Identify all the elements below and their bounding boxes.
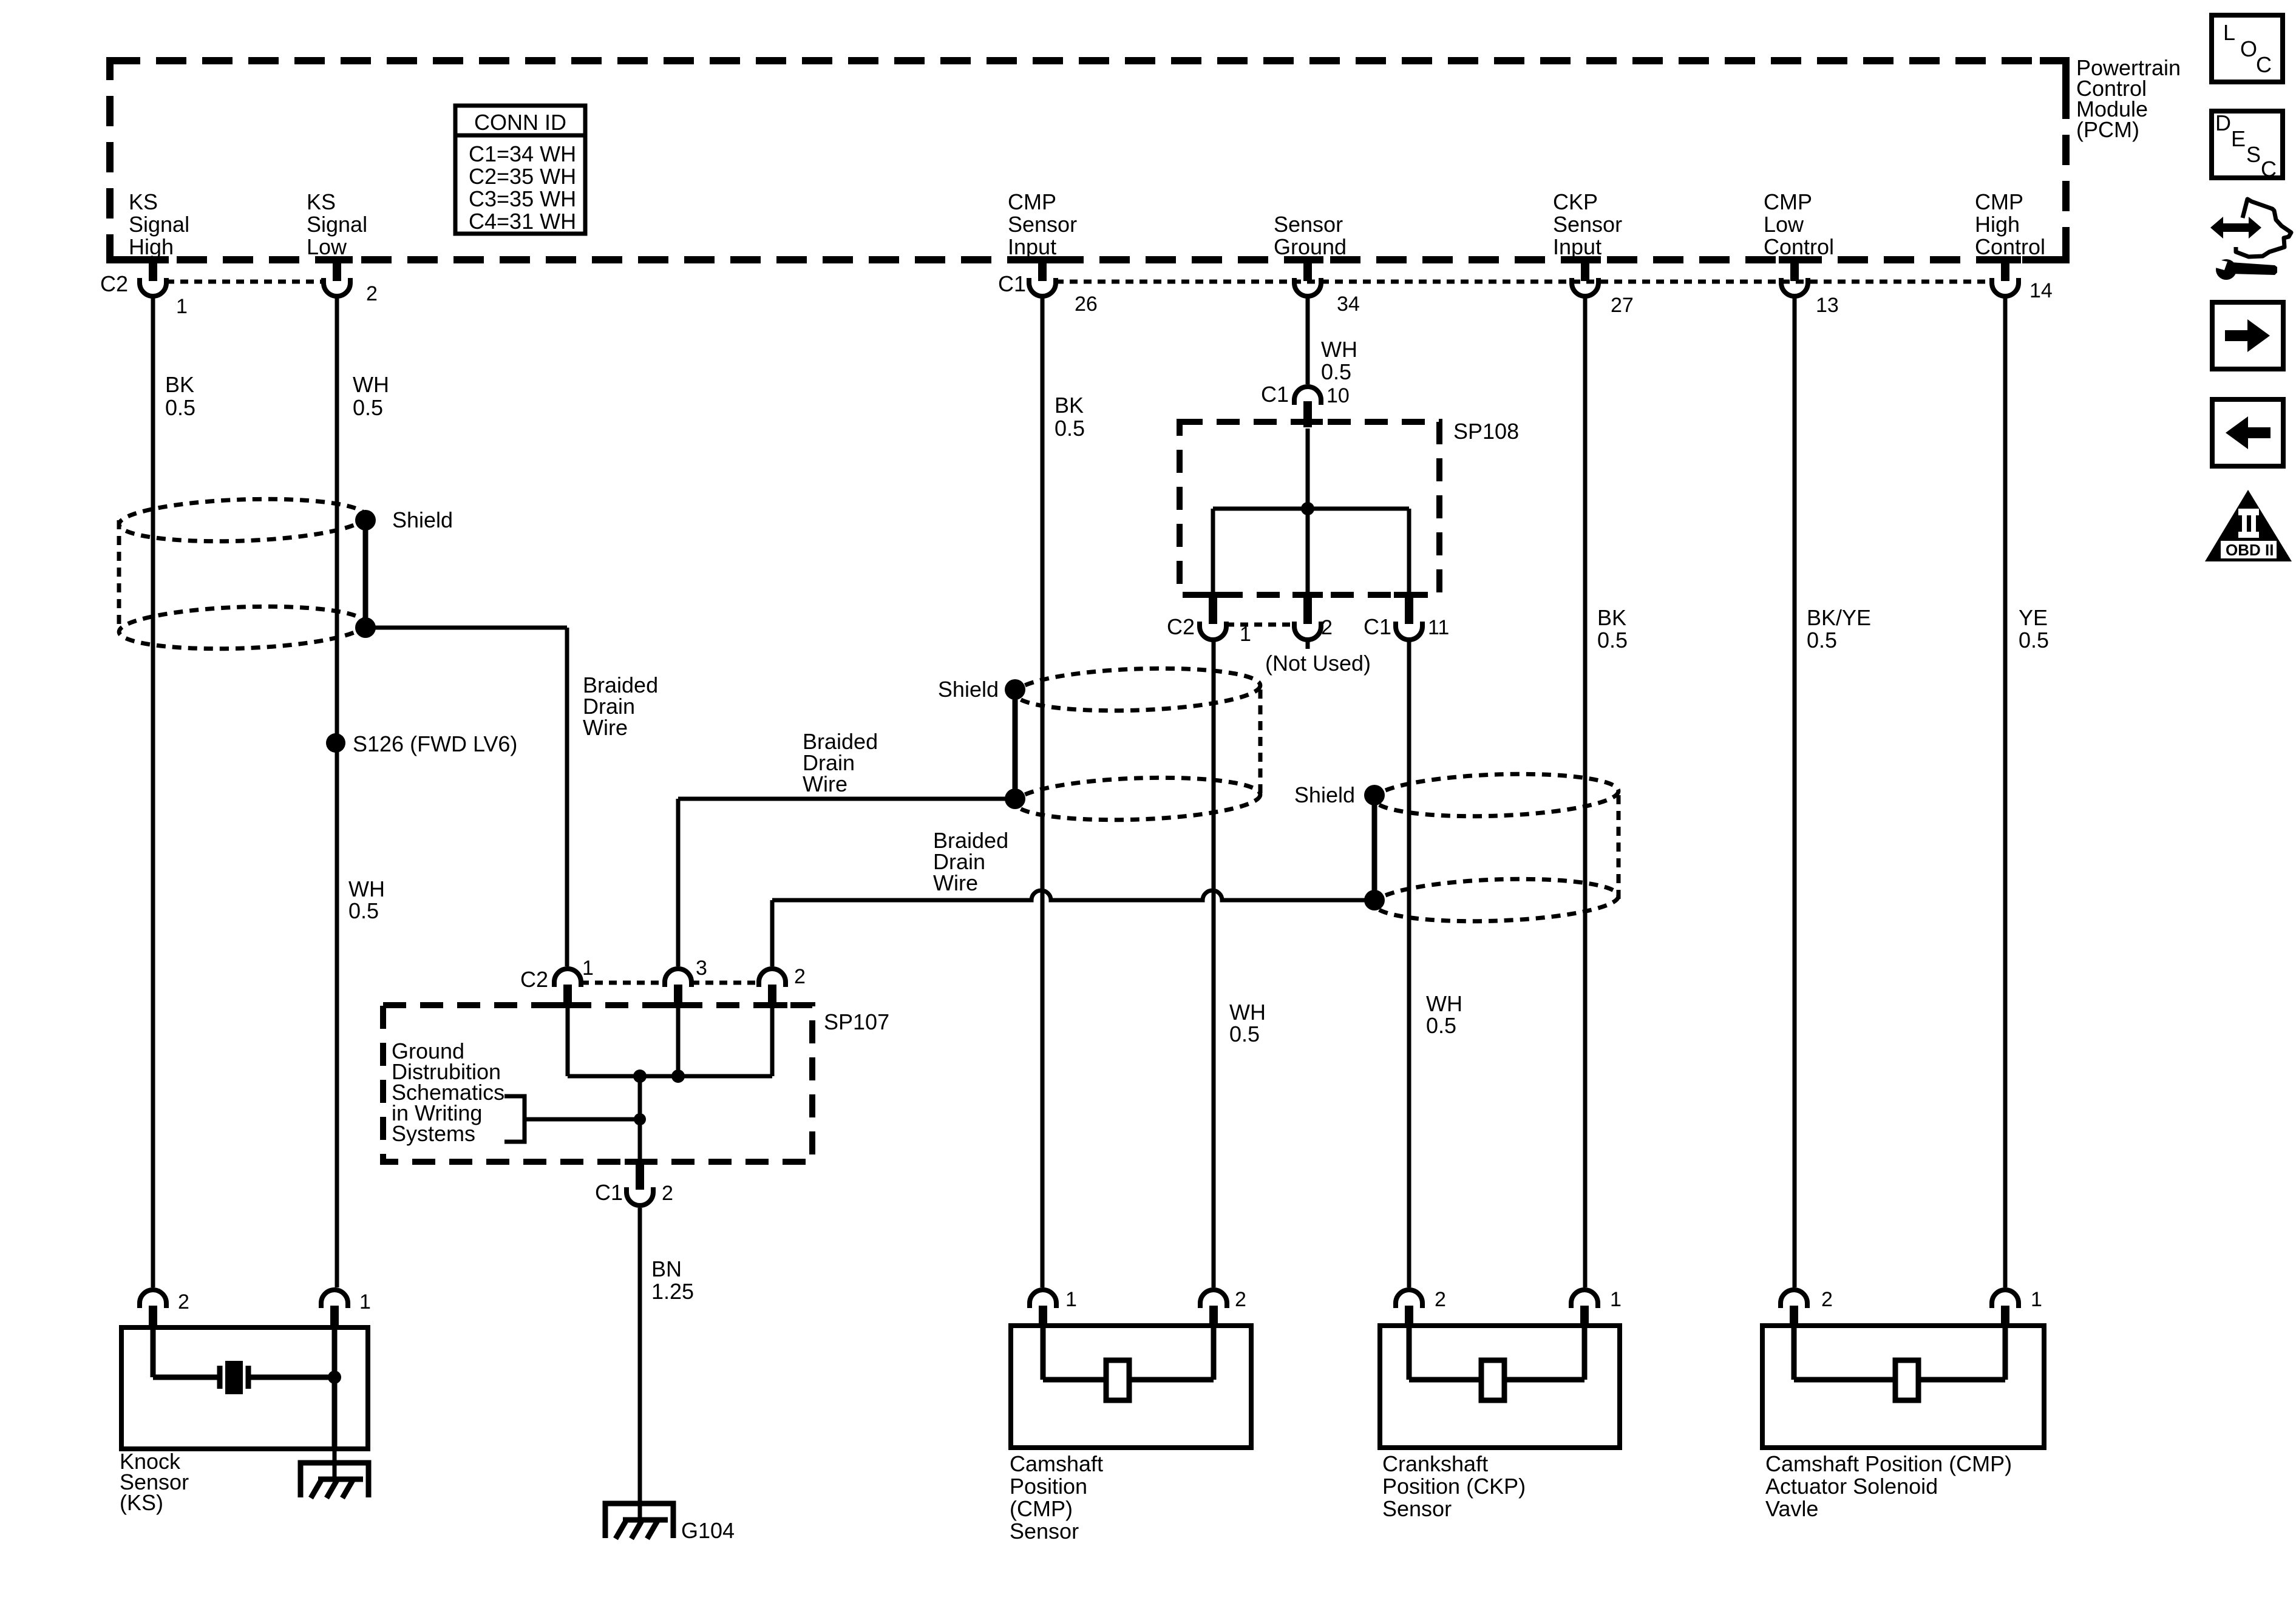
svg-text:BN1.25: BN1.25	[651, 1256, 694, 1304]
terminal C1 pin 27 (CKP Sensor Input)	[1581, 260, 1589, 281]
svg-text:2: 2	[366, 282, 378, 305]
Camshaft Position (CMP) Sensor pin right terminal	[1209, 1306, 1218, 1328]
svg-text:2: 2	[1435, 1288, 1446, 1311]
ground G104	[605, 1503, 673, 1539]
Camshaft Position (CMP) Sensor internal wire right	[1211, 1328, 1217, 1380]
SP107 bottom edge dash at output	[625, 1159, 655, 1165]
node SP107 output junction	[633, 1070, 647, 1083]
svg-text:BraidedDrainWire: BraidedDrainWire	[583, 673, 658, 740]
Camshaft Position (CMP) Sensor element	[1106, 1360, 1129, 1400]
wire SP108 bus	[1213, 507, 1409, 511]
node SP108 junction	[1301, 502, 1314, 515]
knock sensor internal junction	[328, 1371, 341, 1384]
cup C1 pin 34 (Sensor Ground)	[1294, 278, 1321, 296]
CONN ID table box	[455, 106, 585, 234]
knock sensor piezo plate right	[246, 1366, 251, 1389]
SP107 connector face dotted line	[581, 981, 759, 985]
svg-text:BK0.5: BK0.5	[1055, 393, 1085, 441]
Camshaft Position (CMP) Sensor pin left terminal	[1039, 1306, 1047, 1328]
svg-text:Shield: Shield	[392, 507, 453, 532]
braided drain wire CMP horizontal	[678, 797, 1015, 801]
svg-text:S: S	[2246, 142, 2261, 167]
ground distribution bracket	[504, 1096, 525, 1142]
svg-text:G104: G104	[681, 1518, 735, 1543]
node bracket junction	[634, 1113, 646, 1125]
svg-text:BK0.5: BK0.5	[1597, 605, 1628, 653]
braided drain wire KS horizontal	[365, 626, 567, 630]
wire KS Signal Low WH 0.5 (pin2 to knock sensor)	[335, 296, 339, 1287]
svg-text:C: C	[2256, 52, 2272, 77]
svg-text:13: 13	[1816, 294, 1839, 317]
Crankshaft Position (CKP) Sensor pin right cup	[1571, 1290, 1598, 1308]
svg-text:SP107: SP107	[824, 1009, 889, 1034]
terminal SP107 pin 3	[674, 985, 682, 1008]
icon DESC box	[2212, 110, 2283, 181]
Camshaft Position (CMP) Actuator Solenoid Valve pin left cup	[1781, 1290, 1807, 1308]
svg-text:1: 1	[2031, 1288, 2042, 1311]
svg-text:C1: C1	[1261, 382, 1289, 407]
wire KS Signal High BK 0.5 (pin1 to knock sensor)	[151, 296, 155, 1287]
svg-text:PowertrainControlModule(PCM): PowertrainControlModule(PCM)	[2076, 55, 2181, 142]
cup SP108 C1 pin 11	[1396, 622, 1422, 640]
KS shield cylinder side	[117, 520, 121, 628]
CMP shield bottom node	[1005, 788, 1025, 809]
terminal SP108 pin 2	[1303, 595, 1312, 624]
svg-text:WH0.5: WH0.5	[353, 372, 389, 420]
terminal C1 pin 2 (ground feed)	[636, 1162, 644, 1190]
Crankshaft Position (CKP) Sensor internal wire left	[1407, 1328, 1412, 1380]
cup C1 pin 10 (sensor ground inline)	[1294, 387, 1321, 405]
terminal C2 pin 2 (KS Signal Low)	[333, 260, 341, 281]
Camshaft Position (CMP) Sensor internal wire left	[1041, 1328, 1046, 1380]
svg-text:C2: C2	[100, 271, 128, 296]
svg-text:KnockSensor(KS): KnockSensor(KS)	[120, 1449, 189, 1515]
svg-text:CMPHighControl: CMPHighControl	[1975, 189, 2045, 259]
PCM box corner dashes	[2040, 57, 2066, 90]
cup SP107 pin 2	[759, 969, 786, 987]
cup C2 pin 1 (KS Signal High)	[140, 278, 166, 296]
wire BN 1.25 to G104	[638, 1208, 642, 1504]
svg-text:C1: C1	[1364, 614, 1391, 639]
svg-text:O: O	[2240, 36, 2257, 61]
CKP shield top node	[1364, 785, 1385, 805]
svg-text:11: 11	[1428, 616, 1449, 639]
Crankshaft Position (CKP) Sensor box	[1380, 1326, 1620, 1448]
cup C1 pin 27 (CKP Sensor Input)	[1572, 278, 1598, 296]
knock sensor pin 1 cup	[321, 1290, 348, 1308]
knock sensor internal wire right	[332, 1328, 338, 1448]
svg-text:2: 2	[662, 1182, 673, 1205]
Camshaft Position (CMP) Actuator Solenoid Valve box	[1762, 1326, 2044, 1448]
braided drain wire KS vertical	[565, 628, 569, 966]
knock sensor pin 2 terminal	[149, 1306, 157, 1328]
svg-text:BK/YE0.5: BK/YE0.5	[1807, 605, 1871, 653]
icon OBD II triangle	[2205, 490, 2292, 561]
knock sensor internal wire to element	[153, 1375, 220, 1380]
svg-text:OBD II: OBD II	[2226, 541, 2274, 559]
wire SP107 pin2 internal	[770, 1008, 775, 1076]
svg-text:2: 2	[1821, 1288, 1833, 1311]
svg-text:SensorGround: SensorGround	[1274, 212, 1347, 259]
KS shield top node	[355, 510, 376, 531]
KS shield link wire	[363, 520, 369, 628]
wire SP107 bus	[568, 1074, 772, 1079]
knock sensor piezo element	[225, 1361, 243, 1394]
Powertrain Control Module (PCM) dashed box	[110, 61, 2066, 260]
icon back arrow box	[2212, 399, 2283, 466]
svg-text:WH0.5: WH0.5	[1321, 337, 1357, 384]
svg-text:(Not Used): (Not Used)	[1265, 651, 1371, 676]
svg-text:BraidedDrainWire: BraidedDrainWire	[803, 729, 878, 796]
wire SP108 to C1-11	[1407, 509, 1411, 595]
svg-text:S126 (FWD LV6): S126 (FWD LV6)	[353, 731, 517, 756]
svg-text:WH0.5: WH0.5	[1426, 991, 1462, 1038]
SP108 connector face dotted line	[1226, 623, 1294, 627]
svg-text:1: 1	[1065, 1288, 1077, 1311]
svg-text:SP108: SP108	[1453, 419, 1519, 444]
CKP shield bottom node	[1364, 890, 1385, 910]
wire SP107 output internal	[638, 1076, 642, 1162]
CMP shield cylinder bottom ellipse	[1014, 774, 1261, 824]
svg-text:10: 10	[1326, 384, 1350, 407]
splice pack SP107 dashed box	[383, 1005, 812, 1162]
Crankshaft Position (CKP) Sensor element	[1481, 1360, 1504, 1400]
terminal C2 pin 1 (KS Signal High)	[149, 260, 157, 281]
CMP shield link wire	[1013, 690, 1018, 799]
svg-text:34: 34	[1337, 293, 1360, 316]
Camshaft Position (CMP) Actuator Solenoid Valve pin right cup	[1992, 1290, 2019, 1308]
CMP shield cylinder top ellipse	[1014, 665, 1261, 714]
svg-text:Shield: Shield	[1294, 782, 1355, 807]
CONN ID header separator	[455, 134, 585, 138]
svg-text:GroundDistrubitionSchematicsin: GroundDistrubitionSchematicsin WritingSy…	[392, 1039, 504, 1146]
svg-text:C1: C1	[595, 1180, 623, 1205]
CKP shield cylinder top ellipse	[1374, 770, 1619, 820]
svg-text:CMPSensorInput: CMPSensorInput	[1008, 189, 1077, 259]
svg-text:CKPSensorInput: CKPSensorInput	[1553, 189, 1622, 259]
svg-text:BK0.5: BK0.5	[165, 372, 195, 420]
braided drain wire CKP vertical	[770, 900, 775, 966]
Camshaft Position (CMP) Actuator Solenoid Valve pin right terminal	[2001, 1306, 2009, 1328]
svg-text:1: 1	[176, 295, 188, 318]
svg-text:CamshaftPosition(CMP)Sensor: CamshaftPosition(CMP)Sensor	[1010, 1451, 1103, 1544]
svg-text:CrankshaftPosition (CKP)Sensor: CrankshaftPosition (CKP)Sensor	[1382, 1451, 1526, 1521]
Camshaft Position (CMP) Actuator Solenoid Valve internal wire to element	[1794, 1377, 1895, 1383]
svg-text:C2: C2	[1167, 614, 1195, 639]
svg-text:Shield: Shield	[938, 677, 999, 702]
KS shield bottom node	[355, 617, 376, 638]
ground knock sensor ground	[301, 1463, 369, 1498]
terminal C1 pin 13 (CMP Low Control)	[1790, 260, 1799, 281]
cup SP107 pin 3	[665, 969, 691, 987]
Camshaft Position (CMP) Actuator Solenoid Valve internal wire right	[2003, 1328, 2008, 1380]
wire Sensor Ground WH 0.5 (pin34 to C1-10)	[1306, 296, 1310, 384]
KS shield cylinder bottom ellipse	[118, 603, 366, 653]
wire SP108 pin2 stub (not used)	[1306, 641, 1310, 649]
svg-text:C2: C2	[520, 967, 548, 992]
knock sensor internal wire from element	[248, 1375, 335, 1380]
Crankshaft Position (CKP) Sensor internal wire to element	[1409, 1377, 1481, 1383]
svg-text:1: 1	[1610, 1288, 1622, 1311]
knock sensor pin 1 terminal	[330, 1306, 339, 1328]
Crankshaft Position (CKP) Sensor pin right terminal	[1580, 1306, 1589, 1328]
svg-text:2: 2	[1321, 616, 1333, 639]
Camshaft Position (CMP) Sensor pin left cup	[1030, 1290, 1056, 1308]
Camshaft Position (CMP) Sensor internal wire from element	[1129, 1377, 1214, 1383]
terminal C1 pin 10	[1303, 401, 1312, 427]
node SP107 pin3 junction	[671, 1070, 685, 1083]
knock sensor pin 2 cup	[140, 1290, 166, 1308]
terminal SP108 C1 pin 11	[1405, 595, 1413, 624]
SP108 top edge dash at pin 10	[1292, 419, 1323, 425]
cup SP107 C2 pin 1	[554, 969, 581, 987]
icon double arrow with region outline and wrench	[2210, 199, 2291, 280]
knock sensor KS box	[121, 1327, 368, 1449]
svg-text:14: 14	[2029, 279, 2053, 302]
wire knock sensor case ground	[333, 1448, 337, 1479]
svg-text:YE0.5: YE0.5	[2019, 605, 2049, 653]
Crankshaft Position (CKP) Sensor pin left terminal	[1405, 1306, 1413, 1328]
svg-text:WH0.5: WH0.5	[1229, 1000, 1266, 1046]
CMP shield cylinder side	[1258, 690, 1263, 799]
wire SP108 C2-1 to CMP sensor pin2 WH 0.5	[1212, 641, 1216, 1287]
wire CMP Sensor Input BK 0.5 (pin26 to CMP sensor)	[1041, 296, 1045, 1287]
terminal C1 pin 34 (Sensor Ground)	[1303, 260, 1312, 281]
Camshaft Position (CMP) Actuator Solenoid Valve element	[1895, 1360, 1918, 1400]
svg-text:1: 1	[359, 1290, 371, 1314]
svg-text:E: E	[2231, 126, 2246, 151]
svg-text:C: C	[2261, 157, 2277, 181]
svg-text:KSSignalLow: KSSignalLow	[307, 189, 367, 259]
wire bracket to output	[525, 1117, 640, 1122]
svg-text:2: 2	[794, 965, 806, 988]
Crankshaft Position (CKP) Sensor pin left cup	[1396, 1290, 1422, 1308]
wire CMP High Control YE 0.5 (pin14 to actuator)	[2003, 296, 2008, 1287]
cup C1 pin 26 (CMP Sensor Input)	[1029, 278, 1056, 296]
wire sensor ground into SP108	[1306, 429, 1310, 509]
cup C1 pin 14 (CMP High Control)	[1992, 278, 2019, 296]
Camshaft Position (CMP) Actuator Solenoid Valve pin left terminal	[1790, 1306, 1798, 1328]
cup C1 pin 2 (ground feed)	[627, 1187, 653, 1205]
braided drain wire CMP vertical	[676, 799, 681, 966]
wire CMP Low Control BK/YE 0.5 (pin13 to actuator)	[1793, 296, 1797, 1287]
Camshaft Position (CMP) Sensor internal wire to element	[1043, 1377, 1106, 1383]
terminal C1 pin 14 (CMP High Control)	[2001, 260, 2009, 281]
wire stub into G104	[638, 1504, 642, 1520]
svg-text:CONN ID: CONN ID	[474, 110, 566, 135]
SP107 top edge dashes at pins	[552, 1002, 583, 1008]
cup SP108 pin 2	[1294, 622, 1321, 640]
Camshaft Position (CMP) Sensor box	[1011, 1326, 1251, 1448]
cup C2 pin 2 (KS Signal Low)	[324, 278, 350, 296]
CKP shield cylinder bottom ellipse	[1374, 875, 1619, 925]
node S126 splice	[326, 733, 345, 753]
wire SP108 to C2-1	[1211, 509, 1215, 595]
terminal SP107 C2 pin 1	[563, 985, 572, 1008]
wire SP108 to pin2	[1306, 509, 1310, 595]
CKP shield cylinder side	[1617, 795, 1621, 900]
CKP shield link wire	[1372, 795, 1377, 900]
svg-text:BraidedDrainWire: BraidedDrainWire	[933, 828, 1008, 895]
Camshaft Position (CMP) Sensor pin right cup	[1200, 1290, 1227, 1308]
svg-text:Camshaft Position (CMP)Actuato: Camshaft Position (CMP)Actuator Solenoid…	[1765, 1451, 2012, 1521]
svg-text:27: 27	[1611, 294, 1634, 317]
splice pack SP108 dashed box	[1180, 422, 1439, 595]
cup C1 pin 13 (CMP Low Control)	[1781, 278, 1808, 296]
Crankshaft Position (CKP) Sensor internal wire from element	[1504, 1377, 1584, 1383]
svg-text:L: L	[2223, 20, 2235, 45]
svg-text:KSSignalHigh: KSSignalHigh	[129, 189, 189, 259]
wire SP108 C1-11 to CKP sensor pin2 WH 0.5	[1407, 641, 1411, 1287]
svg-text:3: 3	[696, 957, 707, 980]
PCM bottom edge dashes at pins	[137, 256, 169, 263]
KS shield cylinder top ellipse	[118, 495, 366, 545]
svg-text:2: 2	[1235, 1288, 1246, 1311]
svg-text:CMPLowControl: CMPLowControl	[1764, 189, 1834, 259]
Crankshaft Position (CKP) Sensor internal wire right	[1582, 1328, 1588, 1380]
CMP shield top node	[1005, 679, 1025, 700]
terminal SP107 pin 2	[768, 985, 776, 1008]
wire SP107 pin3 internal	[676, 1008, 681, 1076]
SP108 bottom edge dashes at pins	[1198, 592, 1228, 598]
knock sensor piezo plate left	[217, 1366, 223, 1389]
svg-text:1: 1	[582, 957, 594, 980]
connector C1 face dotted line	[1056, 280, 1992, 284]
Camshaft Position (CMP) Actuator Solenoid Valve internal wire from element	[1918, 1377, 2005, 1383]
svg-text:C1=34 WHC2=35 WHC3=35 WHC4=31: C1=34 WHC2=35 WHC3=35 WHC4=31 WH	[469, 141, 576, 234]
svg-text:1: 1	[1240, 623, 1251, 646]
svg-text:WH0.5: WH0.5	[348, 876, 385, 923]
Camshaft Position (CMP) Actuator Solenoid Valve internal wire left	[1792, 1328, 1797, 1380]
knock sensor internal wire left	[151, 1328, 156, 1377]
cup SP108 C2 pin 1	[1200, 622, 1226, 640]
braided drain wire CKP horizontal with hops	[772, 890, 1374, 900]
wire CKP Sensor Input BK 0.5 (pin27 to CKP sensor)	[1583, 296, 1588, 1287]
wire SP107 pin1 internal	[566, 1008, 570, 1076]
terminal C1 pin 26 (CMP Sensor Input)	[1038, 260, 1047, 281]
terminal SP108 C2 pin 1	[1209, 595, 1217, 624]
icon LOC box	[2212, 15, 2283, 82]
svg-text:2: 2	[178, 1290, 189, 1314]
icon forward arrow box	[2212, 302, 2283, 369]
svg-text:D: D	[2215, 110, 2231, 135]
connector C2 face dotted line	[166, 280, 324, 284]
svg-text:C1: C1	[998, 271, 1026, 296]
svg-text:26: 26	[1075, 293, 1098, 316]
